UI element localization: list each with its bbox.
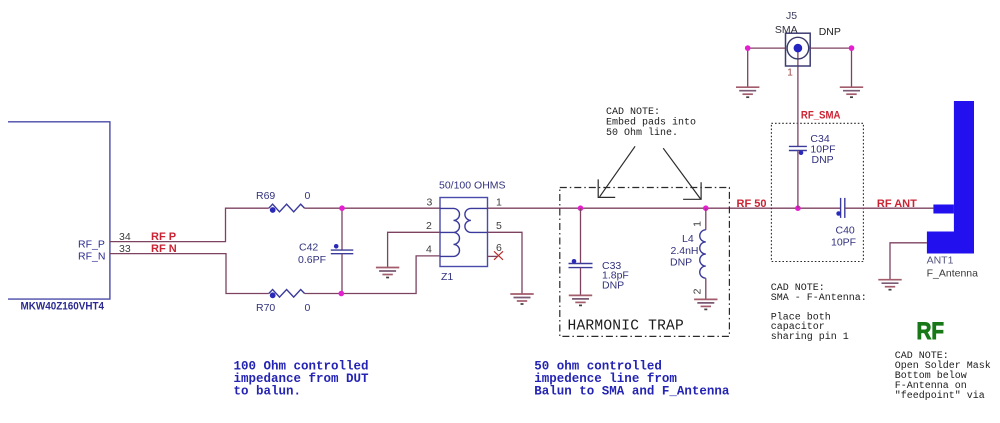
wire RF_N from pin 33 to R70 (110, 254, 269, 294)
CAD NOTE open solder mask (895, 351, 991, 402)
wire balun pin 5 to ground (488, 232, 523, 294)
ground left of J5 (736, 87, 759, 97)
stub balun pin 6 no-connect (488, 255, 498, 257)
wire R69 to balun pin 3 (305, 207, 440, 209)
svg-text:R69: R69 (256, 190, 275, 202)
svg-text:RF_P: RF_P (78, 239, 105, 251)
svg-text:4: 4 (426, 244, 432, 256)
wire main RF 50 line balun pin1 to C40 (488, 207, 841, 209)
inductor L4 (670, 208, 706, 299)
svg-text:DNP: DNP (812, 154, 834, 166)
SMA matching dotted box (771, 123, 863, 261)
svg-text:sharing pin 1: sharing pin 1 (771, 331, 849, 343)
capacitor C42 (298, 208, 353, 293)
svg-text:DNP: DNP (670, 257, 692, 269)
svg-text:DNP: DNP (602, 279, 624, 291)
junction right of J5 (849, 45, 855, 51)
junction left of J5 (745, 45, 751, 51)
svg-text:RF 50: RF 50 (737, 198, 767, 210)
balun Z1 (439, 180, 506, 284)
svg-text:1: 1 (496, 196, 502, 208)
wire C40 to antenna (845, 207, 934, 209)
svg-text:J5: J5 (786, 10, 797, 22)
svg-text:0: 0 (305, 190, 311, 202)
svg-text:0.6PF: 0.6PF (298, 254, 326, 266)
wire J5 right to ground (810, 48, 851, 87)
ground below antenna (878, 280, 901, 290)
svg-text:50/100 OHMS: 50/100 OHMS (439, 180, 506, 192)
svg-text:Z1: Z1 (441, 271, 453, 283)
svg-text:Balun to SMA and F_Antenna: Balun to SMA and F_Antenna (534, 385, 730, 399)
svg-text:"feedpoint" via: "feedpoint" via (895, 390, 985, 402)
junction RF_SMA on RF line (795, 205, 801, 211)
svg-text:RF_SMA: RF_SMA (801, 110, 841, 122)
note 50 ohm controlled impedence (534, 360, 730, 399)
svg-text:to balun.: to balun. (234, 385, 302, 399)
svg-text:2: 2 (426, 220, 432, 232)
svg-text:50 Ohm line.: 50 Ohm line. (606, 127, 678, 139)
svg-text:MKW40Z160VHT4: MKW40Z160VHT4 (21, 301, 105, 313)
svg-text:F_Antenna: F_Antenna (927, 268, 979, 280)
antenna ANT1 F_Antenna body (927, 101, 979, 280)
ground right of J5 (840, 87, 863, 97)
CAD NOTE SMA - F-Antenna (771, 283, 867, 343)
junction C33 on RF line (578, 205, 584, 211)
wire RF_P from pin 34 to R69 (110, 208, 269, 241)
svg-text:2.4nH: 2.4nH (671, 245, 699, 257)
junction bottom of C42 (339, 291, 345, 297)
svg-text:RF_N: RF_N (78, 251, 105, 263)
svg-text:C40: C40 (836, 225, 855, 237)
svg-text:3: 3 (427, 196, 433, 208)
svg-text:5: 5 (496, 220, 502, 232)
svg-text:Embed pads into: Embed pads into (606, 117, 696, 129)
capacitor C34 (789, 66, 836, 208)
junction top of C42 (339, 205, 345, 211)
svg-text:RF ANT: RF ANT (877, 198, 917, 210)
wire balun pin 2 to ground (388, 232, 440, 267)
resistor R69 (256, 190, 311, 213)
arrow right from note to line (663, 148, 701, 199)
svg-text:SMA: SMA (775, 24, 798, 36)
capacitor C40 (831, 198, 856, 249)
note 100 Ohm controlled impedance (234, 360, 370, 399)
svg-text:2: 2 (692, 288, 704, 294)
wire J5 left to ground (748, 48, 786, 87)
svg-text:DNP: DNP (819, 26, 841, 38)
svg-text:L4: L4 (682, 233, 694, 245)
svg-text:0: 0 (305, 302, 311, 314)
junction L4 on RF line (703, 205, 709, 211)
ground below C33 (569, 295, 592, 305)
ground at balun pin 5 (510, 294, 533, 304)
svg-text:C42: C42 (299, 242, 318, 254)
svg-text:R70: R70 (256, 302, 275, 314)
svg-text:CAD NOTE:: CAD NOTE: (606, 107, 660, 118)
harmonic trap dashed box (560, 188, 730, 337)
svg-text:1: 1 (787, 68, 793, 79)
ground at balun pin 2 (376, 268, 399, 278)
no-connect X on pin 6 (494, 251, 503, 259)
ground below L4 (694, 299, 717, 309)
resistor R70 (256, 290, 311, 315)
svg-text:HARMONIC TRAP: HARMONIC TRAP (568, 319, 684, 335)
svg-text:6: 6 (496, 242, 502, 254)
connector J5 SMA (775, 10, 841, 79)
arrow left from note to line (598, 146, 635, 197)
svg-text:ANT1: ANT1 (927, 255, 954, 267)
svg-text:1: 1 (692, 221, 704, 227)
wire antenna foot to ground (890, 243, 927, 280)
CAD NOTE embed pads text (606, 107, 696, 139)
wire R70 to jog up to balun pin 4 (305, 256, 440, 294)
svg-text:SMA - F-Antenna:: SMA - F-Antenna: (771, 293, 867, 304)
IC U? MKW40Z160VHT4 block outline (8, 122, 110, 313)
svg-text:10PF: 10PF (831, 237, 856, 249)
capacitor C33 (569, 208, 629, 295)
svg-text:RF: RF (917, 318, 945, 345)
